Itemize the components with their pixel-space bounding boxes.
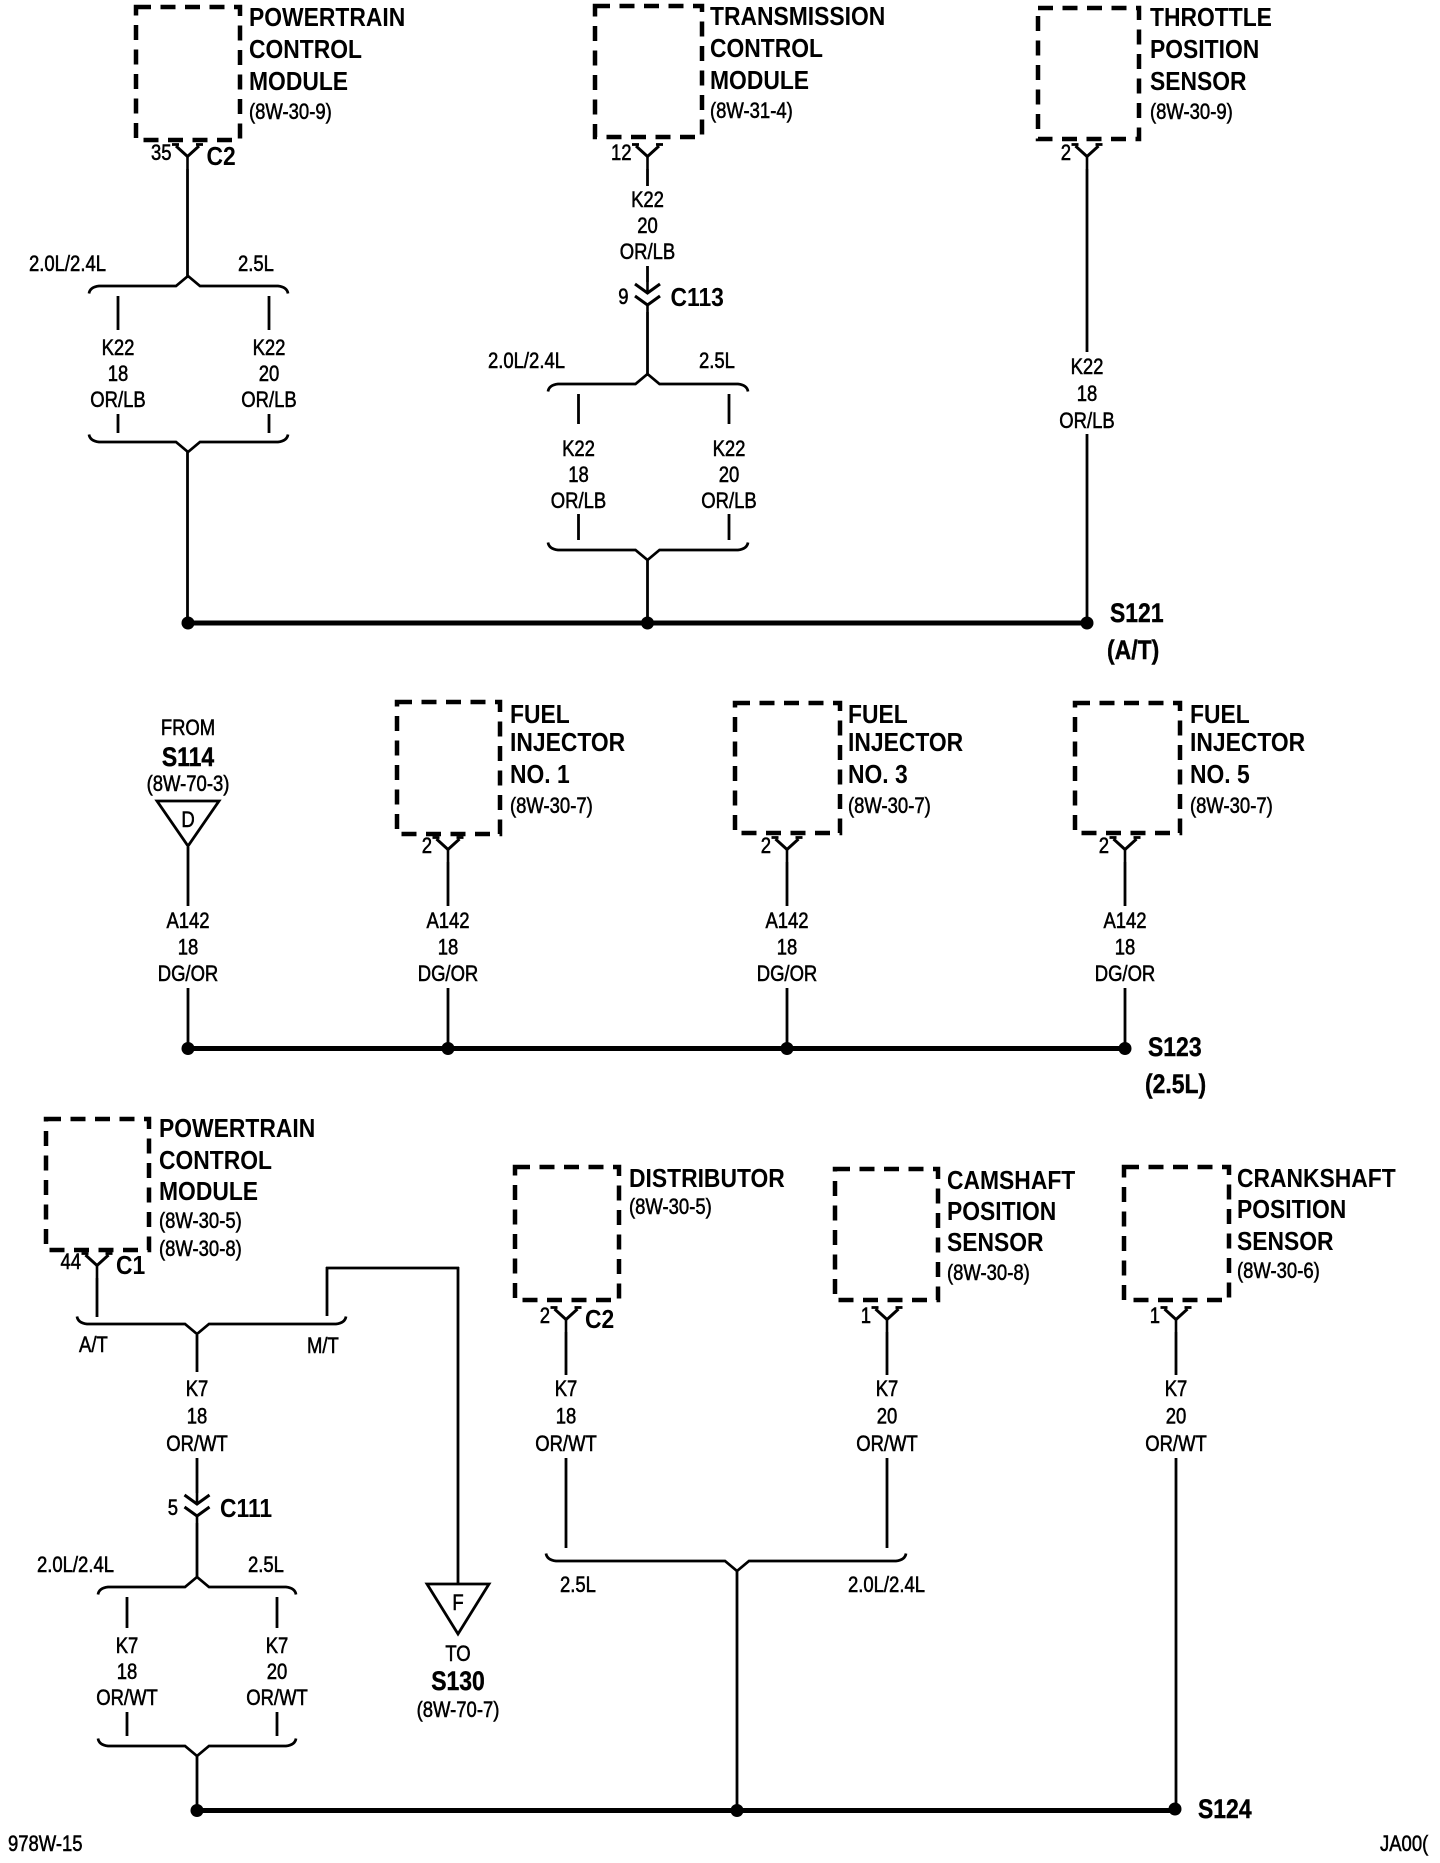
svg-text:2: 2 bbox=[761, 835, 771, 859]
wire from label down to splice bus S123 bbox=[187, 988, 190, 1046]
svg-text:K22: K22 bbox=[562, 438, 595, 462]
svg-text:C1: C1 bbox=[116, 1252, 145, 1281]
component: Crankshaft Position Sensor dashed box bbox=[1124, 1167, 1229, 1300]
svg-text:(8W-30-8): (8W-30-8) bbox=[159, 1238, 242, 1262]
wire from merge brace to splice bus bbox=[646, 560, 649, 623]
svg-text:K7: K7 bbox=[186, 1378, 209, 1402]
component: Powertrain Control Module (top left) dashed box bbox=[136, 7, 240, 140]
brace gathering 2.5L and 2.0L/2.4L wires bbox=[546, 1554, 906, 1572]
svg-text:2.0L/2.4L: 2.0L/2.4L bbox=[488, 350, 565, 374]
svg-text:OR/LB: OR/LB bbox=[1059, 410, 1114, 434]
wire stub below left label bbox=[577, 514, 580, 540]
svg-text:DG/OR: DG/OR bbox=[418, 963, 479, 987]
svg-text:FROM: FROM bbox=[161, 717, 215, 741]
wire from brace down to splice S124 bus bbox=[736, 1571, 739, 1810]
connector C1 pin 44 of PCM bbox=[86, 1255, 109, 1266]
wire from label down to splice S121 bbox=[1086, 434, 1089, 620]
svg-text:MODULE: MODULE bbox=[249, 68, 348, 97]
svg-text:(8W-30-9): (8W-30-9) bbox=[249, 101, 332, 125]
svg-text:9: 9 bbox=[618, 286, 628, 310]
brace splitting wire into 2.0L/2.4L and 2.5L branches bbox=[89, 276, 288, 294]
svg-text:CAMSHAFT: CAMSHAFT bbox=[947, 1167, 1075, 1196]
svg-text:OR/LB: OR/LB bbox=[701, 490, 756, 514]
svg-text:5: 5 bbox=[168, 1497, 178, 1521]
svg-text:M/T: M/T bbox=[307, 1335, 339, 1359]
wire stub right branch (2.5L) bbox=[268, 296, 271, 330]
wire from label down to splice bus S123 bbox=[786, 988, 789, 1046]
svg-text:CONTROL: CONTROL bbox=[159, 1147, 272, 1176]
svg-text:INJECTOR: INJECTOR bbox=[848, 729, 963, 758]
svg-text:44: 44 bbox=[60, 1251, 81, 1275]
wire from label down to 2.0L/2.4L brace bbox=[886, 1458, 889, 1548]
svg-text:2: 2 bbox=[1061, 142, 1071, 166]
component: Fuel Injector No. 1 dashed box bbox=[397, 702, 500, 834]
splice S124 dot bbox=[1169, 1803, 1182, 1816]
svg-text:THROTTLE: THROTTLE bbox=[1150, 4, 1272, 33]
svg-text:2.5L: 2.5L bbox=[699, 350, 735, 374]
svg-text:(A/T): (A/T) bbox=[1107, 635, 1159, 665]
svg-text:18: 18 bbox=[1115, 936, 1136, 960]
wire from A/T-M/T brace down bbox=[196, 1335, 199, 1372]
wire from label down to 2.5L brace bbox=[565, 1458, 568, 1548]
wire from TCM pin 12 down bbox=[646, 169, 649, 186]
wire M/T horizontal run to the right bbox=[326, 1267, 459, 1270]
svg-text:K7: K7 bbox=[555, 1378, 578, 1402]
wire stub left branch bbox=[126, 1597, 129, 1628]
svg-text:20: 20 bbox=[1166, 1405, 1187, 1429]
wire from PCM C1 pin 44 down to A/T M/T brace bbox=[96, 1278, 99, 1317]
svg-text:(8W-30-7): (8W-30-7) bbox=[1190, 795, 1273, 819]
component: Throttle Position Sensor dashed box bbox=[1038, 8, 1139, 139]
svg-text:(8W-30-8): (8W-30-8) bbox=[947, 1262, 1030, 1286]
brace merging branches bbox=[98, 1739, 296, 1757]
svg-text:(8W-30-5): (8W-30-5) bbox=[159, 1210, 242, 1234]
svg-text:OR/WT: OR/WT bbox=[96, 1687, 158, 1711]
wire from distributor down bbox=[565, 1332, 568, 1375]
wire from PCM C2 pin 35 down to split brace bbox=[186, 169, 189, 278]
svg-text:978W-15: 978W-15 bbox=[8, 1833, 83, 1857]
splice bus wire S121 bbox=[188, 621, 1087, 626]
svg-text:20: 20 bbox=[877, 1405, 898, 1429]
wire stub right branch bbox=[728, 394, 731, 424]
wire stub below left label bbox=[126, 1712, 129, 1736]
svg-text:(8W-30-7): (8W-30-7) bbox=[848, 795, 931, 819]
splice S123 dot bbox=[1119, 1042, 1132, 1055]
svg-text:C2: C2 bbox=[585, 1306, 614, 1335]
wire stub left branch (2.0L/2.4L) bbox=[117, 296, 120, 330]
wire stub below left label bbox=[117, 414, 120, 433]
component: Powertrain Control Module (bottom left) dashed box bbox=[46, 1119, 149, 1250]
svg-text:20: 20 bbox=[267, 1661, 288, 1685]
svg-text:(2.5L): (2.5L) bbox=[1145, 1069, 1206, 1099]
svg-text:C111: C111 bbox=[220, 1495, 272, 1524]
svg-text:OR/WT: OR/WT bbox=[856, 1433, 918, 1457]
svg-text:POSITION: POSITION bbox=[1150, 36, 1259, 65]
svg-text:CONTROL: CONTROL bbox=[249, 36, 362, 65]
wire from crankshaft sensor down bbox=[1175, 1332, 1178, 1375]
in-line connector C113 pin 9 bbox=[646, 282, 649, 294]
connector pin 2 of TPS bbox=[1076, 146, 1099, 157]
brace merging branches bbox=[548, 543, 748, 561]
svg-text:OR/LB: OR/LB bbox=[620, 241, 675, 265]
svg-text:2.0L/2.4L: 2.0L/2.4L bbox=[37, 1554, 114, 1578]
wire M/T riser up from brace bbox=[326, 1267, 329, 1316]
svg-text:2.5L: 2.5L bbox=[238, 253, 274, 277]
svg-text:FUEL: FUEL bbox=[848, 701, 908, 730]
wire stub below right label bbox=[276, 1712, 279, 1736]
wire from injector 5 down bbox=[1124, 862, 1127, 906]
wire from triangle D down bbox=[187, 847, 190, 906]
svg-text:(8W-70-7): (8W-70-7) bbox=[417, 1699, 500, 1723]
svg-text:18: 18 bbox=[556, 1405, 577, 1429]
svg-text:K22: K22 bbox=[713, 438, 746, 462]
svg-text:OR/LB: OR/LB bbox=[241, 389, 296, 413]
svg-text:K22: K22 bbox=[253, 337, 286, 361]
svg-text:S114: S114 bbox=[162, 742, 214, 772]
svg-text:OR/WT: OR/WT bbox=[535, 1433, 597, 1457]
svg-text:(8W-70-3): (8W-70-3) bbox=[147, 773, 230, 797]
svg-text:18: 18 bbox=[117, 1661, 138, 1685]
junction dot at PCM branch bbox=[182, 617, 195, 630]
connector pin 12 of TCM bbox=[636, 146, 659, 157]
wire stub below right label bbox=[728, 514, 731, 540]
svg-text:1: 1 bbox=[1150, 1305, 1160, 1329]
svg-text:D: D bbox=[181, 809, 194, 833]
svg-text:18: 18 bbox=[568, 464, 589, 488]
wire from merge brace down to splice S124 bus bbox=[196, 1756, 199, 1810]
svg-text:18: 18 bbox=[187, 1405, 208, 1429]
wire into connector C113 bbox=[646, 266, 649, 282]
in-line connector C111 pin 5 bbox=[196, 1493, 199, 1505]
svg-text:(8W-30-9): (8W-30-9) bbox=[1150, 101, 1233, 125]
wire from camshaft sensor down bbox=[886, 1332, 889, 1375]
svg-text:(8W-30-6): (8W-30-6) bbox=[1237, 1260, 1320, 1284]
svg-text:K7: K7 bbox=[1165, 1378, 1188, 1402]
svg-text:INJECTOR: INJECTOR bbox=[510, 729, 625, 758]
connector C2 pin 35 of PCM bbox=[176, 146, 199, 157]
svg-text:C113: C113 bbox=[671, 284, 724, 313]
connector pin 2 of fuel injector 3 bbox=[776, 839, 799, 850]
component: Distributor dashed box bbox=[515, 1167, 619, 1300]
svg-text:OR/WT: OR/WT bbox=[166, 1433, 228, 1457]
svg-text:35: 35 bbox=[151, 142, 172, 166]
svg-text:1: 1 bbox=[861, 1305, 871, 1329]
svg-text:2: 2 bbox=[540, 1305, 550, 1329]
svg-text:CRANKSHAFT: CRANKSHAFT bbox=[1237, 1165, 1396, 1194]
svg-text:POWERTRAIN: POWERTRAIN bbox=[159, 1115, 315, 1144]
svg-text:A142: A142 bbox=[765, 910, 808, 934]
svg-text:2: 2 bbox=[1099, 835, 1109, 859]
svg-text:POWERTRAIN: POWERTRAIN bbox=[249, 4, 405, 33]
svg-text:CONTROL: CONTROL bbox=[710, 35, 823, 64]
svg-text:K22: K22 bbox=[1071, 356, 1104, 380]
svg-text:DISTRIBUTOR: DISTRIBUTOR bbox=[629, 1165, 785, 1194]
wire from injector 3 down bbox=[786, 862, 789, 906]
svg-text:(8W-30-7): (8W-30-7) bbox=[510, 795, 593, 819]
svg-text:S124: S124 bbox=[1198, 1794, 1252, 1824]
svg-text:S123: S123 bbox=[1148, 1032, 1202, 1062]
svg-text:F: F bbox=[452, 1592, 463, 1616]
connector pin 2 of fuel injector 1 bbox=[437, 839, 460, 850]
wire stub below right label bbox=[268, 414, 271, 433]
wire from TPS pin 2 down bbox=[1086, 169, 1089, 352]
svg-text:20: 20 bbox=[259, 363, 280, 387]
wire from label down to splice S124 bbox=[1175, 1458, 1178, 1806]
svg-text:12: 12 bbox=[611, 142, 632, 166]
svg-text:K7: K7 bbox=[266, 1635, 289, 1659]
svg-text:SENSOR: SENSOR bbox=[1237, 1228, 1334, 1257]
svg-text:MODULE: MODULE bbox=[159, 1178, 258, 1207]
svg-text:18: 18 bbox=[178, 936, 199, 960]
component: Fuel Injector No. 3 dashed box bbox=[735, 703, 840, 833]
brace merging branches back together bbox=[89, 435, 288, 453]
junction dot at distributor/sensors branch bbox=[731, 1804, 744, 1817]
wire from merge brace down to splice S121 bus bbox=[186, 452, 189, 623]
svg-text:JA00(: JA00( bbox=[1380, 1833, 1428, 1857]
connector pin 1 of camshaft position sensor bbox=[876, 1309, 899, 1320]
svg-text:20: 20 bbox=[637, 215, 658, 239]
svg-text:TO: TO bbox=[445, 1643, 470, 1667]
component: Fuel Injector No. 5 dashed box bbox=[1075, 703, 1180, 833]
junction dot at PCM branch bbox=[191, 1804, 204, 1817]
component: Transmission Control Module dashed box bbox=[595, 6, 702, 137]
svg-text:K22: K22 bbox=[102, 337, 135, 361]
svg-text:C2: C2 bbox=[207, 143, 236, 172]
wire from C111 down to split brace bbox=[196, 1523, 199, 1578]
svg-text:18: 18 bbox=[438, 936, 459, 960]
svg-text:FUEL: FUEL bbox=[510, 701, 570, 730]
junction dot at injector 3 branch bbox=[781, 1042, 794, 1055]
wire stub left branch bbox=[577, 394, 580, 424]
wire stub right branch bbox=[276, 1597, 279, 1628]
svg-text:A142: A142 bbox=[166, 910, 209, 934]
svg-text:SENSOR: SENSOR bbox=[1150, 68, 1247, 97]
svg-text:20: 20 bbox=[719, 464, 740, 488]
svg-text:POSITION: POSITION bbox=[947, 1198, 1056, 1227]
svg-text:K7: K7 bbox=[876, 1378, 899, 1402]
svg-text:NO. 1: NO. 1 bbox=[510, 761, 570, 790]
svg-text:18: 18 bbox=[108, 363, 129, 387]
svg-text:S130: S130 bbox=[431, 1666, 485, 1696]
svg-text:K7: K7 bbox=[116, 1635, 139, 1659]
svg-text:DG/OR: DG/OR bbox=[757, 963, 818, 987]
svg-text:INJECTOR: INJECTOR bbox=[1190, 729, 1305, 758]
svg-text:18: 18 bbox=[1077, 383, 1098, 407]
wire from label down to splice bus S123 bbox=[447, 988, 450, 1046]
svg-text:2.0L/2.4L: 2.0L/2.4L bbox=[848, 1574, 925, 1598]
svg-text:2: 2 bbox=[422, 835, 432, 859]
svg-text:MODULE: MODULE bbox=[710, 67, 809, 96]
svg-text:(8W-30-5): (8W-30-5) bbox=[629, 1196, 712, 1220]
svg-text:(8W-31-4): (8W-31-4) bbox=[710, 100, 793, 124]
connector pin 1 of crankshaft position sensor bbox=[1165, 1309, 1188, 1320]
triangle connector D from S114 bbox=[157, 801, 219, 846]
svg-text:A142: A142 bbox=[1103, 910, 1146, 934]
svg-text:OR/LB: OR/LB bbox=[551, 490, 606, 514]
svg-text:K22: K22 bbox=[631, 189, 664, 213]
svg-text:NO. 3: NO. 3 bbox=[848, 761, 908, 790]
splice bus wire S124 bbox=[197, 1808, 1175, 1813]
svg-text:2.5L: 2.5L bbox=[248, 1554, 284, 1578]
brace gathering A/T and M/T wires bbox=[77, 1317, 346, 1335]
svg-text:A142: A142 bbox=[426, 910, 469, 934]
connector pin 2 of fuel injector 5 bbox=[1114, 839, 1137, 850]
svg-text:TRANSMISSION: TRANSMISSION bbox=[710, 3, 885, 32]
svg-text:SENSOR: SENSOR bbox=[947, 1229, 1044, 1258]
splice bus wire S123 bbox=[188, 1046, 1125, 1051]
wire into connector C111 bbox=[196, 1458, 199, 1493]
svg-text:18: 18 bbox=[777, 936, 798, 960]
junction dot at injector 1 branch bbox=[442, 1042, 455, 1055]
svg-text:OR/WT: OR/WT bbox=[1145, 1433, 1207, 1457]
wire from injector 1 down bbox=[447, 862, 450, 906]
svg-text:A/T: A/T bbox=[79, 1334, 108, 1358]
svg-text:NO. 5: NO. 5 bbox=[1190, 761, 1250, 790]
brace splitting into 2.0L/2.4L and 2.5L branches bbox=[98, 1577, 296, 1595]
svg-text:2.5L: 2.5L bbox=[560, 1574, 596, 1598]
svg-text:FUEL: FUEL bbox=[1190, 701, 1250, 730]
component: Camshaft Position Sensor dashed box bbox=[835, 1169, 938, 1300]
svg-text:2.0L/2.4L: 2.0L/2.4L bbox=[29, 253, 106, 277]
svg-text:POSITION: POSITION bbox=[1237, 1196, 1346, 1225]
triangle connector F to S130 bbox=[427, 1584, 489, 1634]
connector C2 pin 2 of distributor bbox=[555, 1309, 578, 1320]
wire from label down to splice S123 bbox=[1124, 988, 1127, 1046]
svg-text:S121: S121 bbox=[1110, 598, 1164, 628]
svg-text:OR/LB: OR/LB bbox=[90, 389, 145, 413]
svg-text:OR/WT: OR/WT bbox=[246, 1687, 308, 1711]
svg-text:DG/OR: DG/OR bbox=[158, 963, 219, 987]
wire from C113 to split brace bbox=[646, 312, 649, 376]
junction dot at S114 branch bbox=[182, 1042, 195, 1055]
brace splitting into 2.0L/2.4L and 2.5L branches bbox=[548, 374, 748, 392]
svg-text:DG/OR: DG/OR bbox=[1095, 963, 1156, 987]
splice S121 dot bbox=[1081, 617, 1094, 630]
junction dot at TCM branch bbox=[641, 617, 654, 630]
wire M/T long vertical down to triangle F bbox=[457, 1267, 460, 1585]
